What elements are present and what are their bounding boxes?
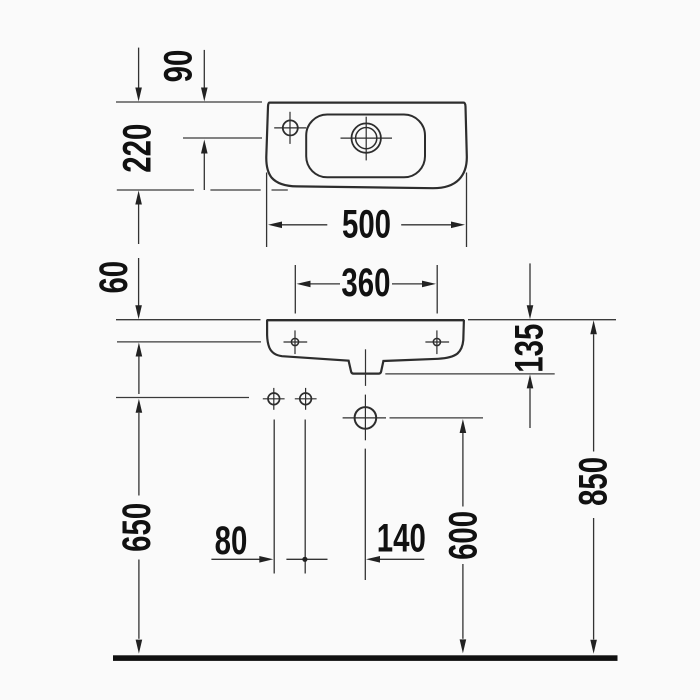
svg-text:360: 360 <box>341 261 390 305</box>
svg-text:140: 140 <box>377 516 426 560</box>
svg-text:80: 80 <box>215 519 248 563</box>
svg-text:90: 90 <box>156 50 200 83</box>
svg-text:650: 650 <box>115 503 159 552</box>
svg-text:500: 500 <box>342 202 391 246</box>
svg-text:220: 220 <box>115 124 159 173</box>
svg-text:60: 60 <box>91 261 135 294</box>
svg-text:600: 600 <box>441 511 485 560</box>
svg-text:135: 135 <box>507 324 551 373</box>
svg-text:850: 850 <box>571 457 615 506</box>
